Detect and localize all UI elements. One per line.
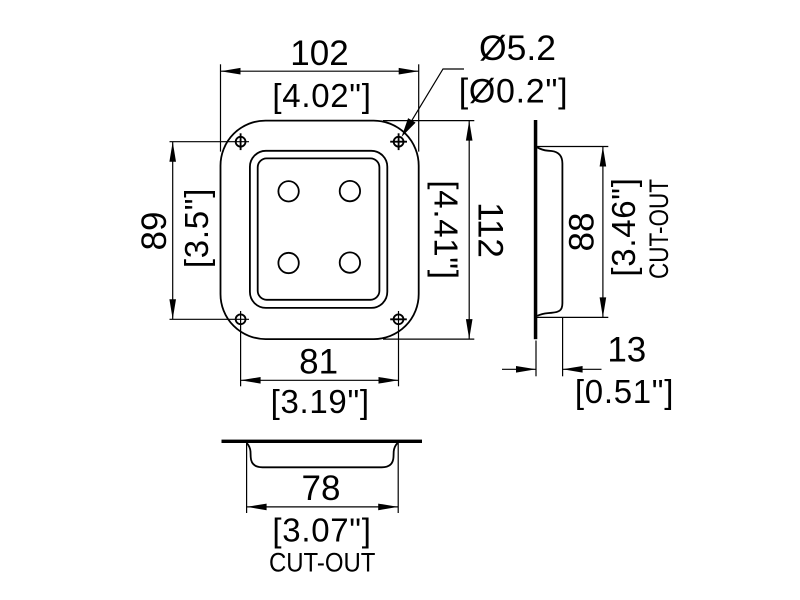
- screw hole top-right: [390, 133, 407, 150]
- dimension 81 arrows: [241, 377, 399, 384]
- svg-text:78: 78: [302, 469, 341, 508]
- svg-text:[3.5"]: [3.5"]: [178, 188, 215, 268]
- bottom view panel thick line: [222, 440, 423, 443]
- hole bottom-right: [340, 252, 360, 272]
- svg-text:13: 13: [607, 331, 646, 370]
- dimension 13 arrow right: [563, 368, 602, 370]
- dimension 112 extension lines: [383, 121, 474, 340]
- dimension 89 line: [172, 142, 174, 320]
- hole top-right: [340, 181, 360, 201]
- dimension 78 arrows: [247, 504, 399, 511]
- side view dish profile: [537, 147, 562, 315]
- front view plate outline: [221, 121, 419, 340]
- screw hole bottom-right: [390, 314, 407, 324]
- leader line for hole diameter: [404, 69, 465, 134]
- dimension 89 extension lines: [170, 142, 250, 320]
- front view dish inner rim: [258, 158, 380, 299]
- svg-text:[3.46"]: [3.46"]: [605, 177, 642, 276]
- svg-text:81: 81: [299, 342, 338, 381]
- dimension 112 arrows: [466, 121, 473, 340]
- svg-text:88: 88: [563, 213, 602, 252]
- svg-text:[4.02"]: [4.02"]: [272, 77, 371, 114]
- dimension 81 extension lines: [241, 311, 399, 386]
- screw hole bottom-left: [236, 314, 246, 324]
- hole bottom-left: [278, 253, 298, 273]
- dimension 89 arrows: [169, 142, 176, 320]
- dimension 102 extension lines: [221, 64, 419, 151]
- svg-text:[3.19"]: [3.19"]: [271, 383, 370, 420]
- dimension 13 arrow left: [502, 368, 536, 370]
- svg-text:[Ø0.2"]: [Ø0.2"]: [459, 73, 569, 111]
- dimension 13 extension lines: [536, 318, 563, 376]
- svg-text:[3.07"]: [3.07"]: [272, 512, 371, 549]
- bottom view dish profile: [247, 443, 398, 467]
- svg-text:102: 102: [290, 34, 348, 73]
- svg-text:112: 112: [471, 202, 510, 258]
- hole top-left: [278, 181, 298, 201]
- dimension 88 arrows: [600, 147, 607, 318]
- svg-text:89: 89: [135, 212, 174, 251]
- screw hole top-left: [236, 133, 246, 150]
- svg-text:CUT-OUT: CUT-OUT: [644, 179, 674, 279]
- dimension 102 arrows: [221, 68, 419, 75]
- dimension 102 line: [221, 70, 419, 72]
- svg-text:CUT-OUT: CUT-OUT: [269, 547, 376, 577]
- dimension 81 line: [241, 379, 399, 381]
- svg-text:[0.51"]: [0.51"]: [575, 373, 674, 410]
- dimension 78 line: [247, 506, 399, 508]
- dimension 78 extension lines: [247, 443, 399, 513]
- svg-text:[4.41"]: [4.41"]: [428, 180, 465, 279]
- svg-text:Ø5.2: Ø5.2: [479, 28, 556, 68]
- front view dish outer rim: [250, 151, 387, 308]
- dimension 88 extension lines: [537, 147, 609, 318]
- side view panel thick line: [534, 120, 538, 339]
- dimension 88 line: [602, 147, 604, 318]
- dimension 112 line: [468, 121, 470, 340]
- leader arrowhead: [402, 118, 416, 137]
